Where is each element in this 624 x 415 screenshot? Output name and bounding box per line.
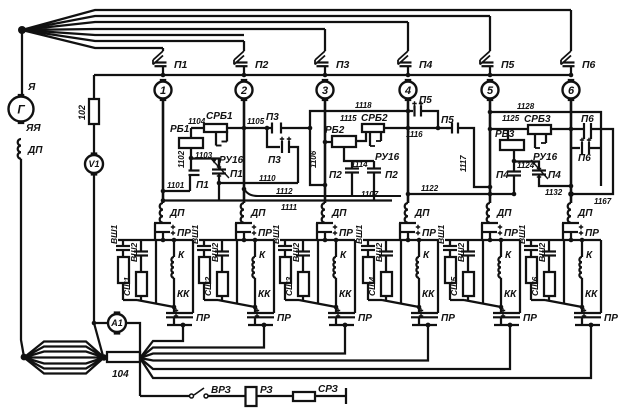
svg-text:П6: П6 — [582, 59, 596, 71]
resistor 102 — [89, 99, 99, 124]
switch ВРЗ (earth relay switch) — [190, 394, 194, 398]
wire: resistor bottoms (branch 2) — [203, 283, 205, 300]
contact ВШ1 (branch 6) — [530, 240, 532, 246]
svg-text:1101: 1101 — [167, 181, 185, 190]
inductor ДП (branch 3) — [322, 203, 325, 223]
resistor box (under ВШ1, branch 6) — [526, 257, 537, 283]
svg-text:4: 4 — [404, 85, 411, 97]
svg-text:КК: КК — [339, 289, 352, 300]
wire: resistor bottom wire (branch 5) — [450, 299, 464, 301]
motor circle 1 — [160, 79, 167, 82]
wire: resistor bottoms (branch 5) — [449, 283, 451, 300]
wire: motor left side (branch 3) — [317, 240, 319, 304]
svg-text:РБ3: РБ3 — [495, 129, 515, 140]
svg-text:П1: П1 — [230, 169, 243, 180]
wire: motor return cable from shunt 104 — [140, 325, 510, 369]
svg-text:П3: П3 — [268, 155, 281, 166]
svg-text:ДП: ДП — [27, 145, 43, 156]
resistor box (under ВШ1, branch 5) — [445, 257, 456, 283]
node: junction of П2 on common line — [242, 73, 247, 78]
contactor ПР lower (branch 3) — [335, 307, 337, 313]
wire: common line to resistor 102 — [93, 75, 95, 99]
contactor П2 left (cluster 2) — [344, 147, 374, 161]
node: junction of П1 on common line — [161, 73, 166, 78]
switch П2 (knife disconnector) — [243, 41, 245, 51]
motor circle 4 — [405, 79, 412, 82]
wire 1106: rail1 to branch 3 — [281, 127, 310, 129]
svg-text:ВШ2: ВШ2 — [291, 243, 301, 262]
svg-text:1111: 1111 — [281, 203, 298, 212]
wire: КК compensating winding (branch 2) — [254, 278, 256, 307]
svg-text:ПР: ПР — [523, 313, 537, 324]
wire: branch 2 vertical from circle 2 — [243, 99, 246, 203]
wire: bus line to switch П3 — [22, 29, 325, 30]
wire: left cable bundle line — [24, 347, 104, 358]
svg-text:К: К — [505, 250, 512, 261]
wire 1132 — [569, 184, 574, 189]
wire: branch 6 bottom wire — [575, 324, 600, 326]
svg-text:ДП: ДП — [577, 208, 593, 219]
node: motor bottom junction (branch 4) — [417, 305, 422, 310]
wire: junction diagonal to shunt 104 — [94, 323, 103, 356]
svg-text:П6: П6 — [581, 114, 594, 125]
wire: bus line to switch П4 — [22, 22, 408, 30]
relay РБ3 — [500, 140, 524, 150]
svg-text:1110: 1110 — [259, 174, 276, 183]
wire 1128: branch 5 to П6 box — [490, 112, 601, 186]
wire: motor left side (branch 6) — [563, 240, 565, 304]
svg-text:1132: 1132 — [545, 188, 563, 197]
svg-text:ДП: ДП — [331, 208, 347, 219]
svg-text:ПР: ПР — [441, 313, 455, 324]
switch П4 (knife disconnector) — [407, 22, 409, 51]
svg-text:СРБ3: СРБ3 — [524, 114, 551, 125]
svg-text:К: К — [340, 250, 347, 261]
motor circle 3 — [322, 79, 329, 82]
wire: bus line to switch П6 — [22, 10, 571, 30]
wire: resistor bottoms (branch 4) — [367, 283, 369, 300]
motor circle 5 — [487, 79, 494, 82]
svg-text:1104: 1104 — [188, 117, 206, 126]
wire 1122: branch 4 to branch 5 — [408, 193, 490, 195]
ammeter А1 — [94, 322, 107, 324]
contact ВШ1 (branch 1) — [122, 240, 124, 246]
wire: branch 2 top rail — [199, 239, 274, 241]
wire: branch 1 bottom wire — [167, 324, 192, 326]
wire: left cable bundle line — [24, 342, 104, 358]
svg-text:ДП: ДП — [169, 208, 185, 219]
wire: branch 2 right side — [273, 240, 275, 313]
contact П4 (plain, cluster 3) — [513, 161, 515, 171]
svg-text:6: 6 — [568, 85, 575, 97]
svg-text:ДП: ДП — [496, 208, 512, 219]
wire: branch 5 vertical from circle 5 — [489, 99, 492, 203]
resistor СШ4 (branch 4) — [381, 272, 392, 296]
inductor К main pole winding (branch 2) — [254, 240, 256, 257]
svg-text:РЗ: РЗ — [260, 385, 273, 396]
svg-text:П2: П2 — [329, 170, 342, 181]
wire: brush diagonal (branch 4) — [382, 300, 419, 307]
contactor ПР upper (branch 1) — [162, 222, 164, 225]
wire: motor return cable from shunt 104 — [140, 325, 345, 358]
contact П1 (plain, cluster 1) — [190, 159, 192, 170]
wire 1103: РБ1 bottom junction — [190, 148, 192, 158]
contact П6 (upper, on rail 3) — [569, 127, 574, 132]
inductor К main pole winding (branch 1) — [173, 240, 175, 257]
wire: branch 6 vertical from circle 6 — [570, 99, 573, 203]
svg-text:ВШ2: ВШ2 — [129, 243, 139, 262]
wire: resistor bottoms (branch 1) — [122, 283, 124, 300]
svg-text:104: 104 — [112, 369, 129, 380]
wire 1124: РБ3 bottom junction — [513, 150, 515, 161]
contactor ПР upper (branch 5) — [489, 222, 491, 225]
svg-text:ДП: ДП — [250, 208, 266, 219]
wire: bus line to switch П5 — [22, 16, 490, 30]
svg-text:ПР: ПР — [196, 313, 210, 324]
inductor ДП (branch 2) — [241, 203, 244, 223]
wire: А1 to bottom relay wire — [126, 323, 140, 396]
wire: branch 2 bottom wire — [248, 324, 273, 326]
contact РУ16 (cluster 3) — [534, 134, 536, 148]
contactor ПР upper (branch 6) — [570, 222, 572, 225]
wire: КК compensating winding (branch 3) — [335, 278, 337, 307]
switch П3 (knife disconnector) — [324, 29, 326, 51]
contact ВШ2 (branch 2) — [221, 240, 223, 251]
svg-text:ВШ1: ВШ1 — [517, 225, 527, 244]
inductor ДП (branch 1) — [160, 203, 163, 223]
wire: branch 6 right side — [600, 240, 602, 313]
wire: КК compensating winding (branch 6) — [581, 278, 583, 307]
resistor СШ2 (branch 2) — [217, 272, 228, 296]
svg-text:ВШ2: ВШ2 — [537, 243, 547, 262]
wire: branch 1 vertical from circle 1 — [162, 99, 165, 203]
inductor ДП (branch 5) — [487, 203, 490, 223]
wire: resistor bottoms (branch 3) — [284, 283, 286, 300]
resistor СШ3 (branch 3) — [298, 272, 309, 296]
wire: КК compensating winding (branch 5) — [500, 278, 502, 307]
contactor П5 with arrow (branch 4 loop) — [406, 109, 411, 114]
wire: motor left side (branch 2) — [236, 240, 238, 304]
svg-text:1116: 1116 — [406, 130, 423, 139]
svg-text:ВШ2: ВШ2 — [374, 243, 384, 262]
wire 1117: to branch 5 — [458, 128, 490, 187]
node: junction of П4 on common line — [406, 73, 411, 78]
svg-text:1114: 1114 — [351, 160, 368, 169]
wire: branch 4 bottom wire — [412, 324, 437, 326]
node: ammeter tap junction — [92, 321, 97, 326]
svg-text:СРЗ: СРЗ — [318, 384, 339, 395]
wire: motor return cable from shunt 104 — [140, 325, 591, 378]
wire: РБ2 feed from branch 3 — [325, 141, 332, 143]
contact ВШ2 (branch 1) — [140, 240, 142, 251]
wire: resistor bottom wire (branch 1) — [123, 299, 137, 301]
contactor ПР upper (branch 2) — [243, 222, 245, 225]
wire: rail3 right to П6 vertical — [571, 129, 613, 194]
wire: СРБ1 to РБ1 — [190, 128, 192, 138]
svg-text:П4: П4 — [496, 170, 509, 181]
svg-text:КК: КК — [177, 289, 190, 300]
svg-text:ПР: ПР — [585, 228, 599, 239]
wire: branch 4 top rail — [363, 239, 438, 241]
resistor box (under ВШ1, branch 4) — [363, 257, 374, 283]
inductor К main pole winding (branch 6) — [581, 240, 583, 257]
wire: motor left side (branch 4) — [400, 240, 402, 304]
svg-text:1125: 1125 — [502, 114, 520, 123]
svg-text:КК: КК — [504, 289, 517, 300]
wire: branch 3 bottom wire — [329, 324, 354, 326]
svg-text:ВШ1: ВШ1 — [271, 225, 281, 244]
node: motor bottom junction (branch 5) — [499, 305, 504, 310]
svg-text:П5: П5 — [441, 115, 454, 126]
contactor ПР lower (branch 2) — [254, 307, 256, 313]
wire: brush diagonal (branch 2) — [218, 300, 255, 307]
switch П1 (knife disconnector) — [162, 48, 164, 51]
svg-text:П4: П4 — [419, 59, 433, 71]
svg-text:ПР: ПР — [358, 313, 372, 324]
svg-text:К: К — [586, 250, 593, 261]
svg-text:РБ1: РБ1 — [170, 124, 190, 135]
svg-text:2: 2 — [240, 85, 247, 97]
contact ВШ1 (branch 4) — [367, 240, 369, 246]
wire: resistor bottom wire (branch 2) — [204, 299, 218, 301]
wire: resistor bottoms (branch 6) — [530, 283, 532, 300]
motor circle 6 — [568, 79, 575, 82]
node: junction of П6 on common line — [569, 73, 574, 78]
svg-text:ВШ1: ВШ1 — [354, 225, 364, 244]
contact РУ16 (cluster 1) — [215, 132, 217, 146]
contactor П2 right (cluster 2) — [373, 161, 375, 168]
svg-text:П5: П5 — [501, 59, 515, 71]
svg-text:102: 102 — [77, 105, 87, 120]
contactor ПР lower (branch 5) — [500, 307, 502, 313]
svg-text:V1: V1 — [88, 159, 99, 169]
wire: common line below switches (y=75) — [94, 74, 571, 76]
relay СРБ2 — [362, 124, 384, 132]
wire: resistor 102 to voltmeter V1 — [93, 124, 95, 155]
node: junction of П5 on common line — [488, 73, 493, 78]
svg-text:3: 3 — [322, 85, 328, 97]
wire: motor left side (branch 1) — [155, 240, 157, 304]
wire: branch 3 right side — [354, 240, 356, 313]
wire: to contact П1 (arrowed) — [191, 159, 219, 168]
wire: brush diagonal (branch 5) — [464, 300, 501, 307]
svg-text:П4: П4 — [548, 170, 561, 181]
contact ВШ1 (branch 5) — [449, 240, 451, 246]
contactor ПР upper (branch 4) — [407, 222, 409, 225]
wire: branch 4 vertical from circle 4 — [407, 99, 410, 203]
inductor ДП (branch 4) — [405, 203, 408, 223]
wire 1110 — [219, 182, 298, 184]
svg-text:К: К — [259, 250, 266, 261]
svg-text:П1: П1 — [174, 59, 188, 71]
svg-text:К: К — [178, 250, 185, 261]
relay РЗ — [246, 387, 257, 406]
contact ВШ2 (branch 4) — [385, 240, 387, 251]
svg-text:ВШ1: ВШ1 — [436, 225, 446, 244]
svg-text:1102: 1102 — [177, 150, 186, 168]
wire: СРЗ end terminal — [315, 395, 346, 397]
wire 1118: to П5 loop at branch 4 — [310, 111, 408, 128]
inductor К main pole winding (branch 5) — [500, 240, 502, 257]
wire: РБ2 to СРБ2 — [356, 132, 366, 141]
motor circle 2 — [241, 79, 248, 82]
svg-text:ПР: ПР — [277, 313, 291, 324]
contactor ПР upper (branch 3) — [324, 222, 326, 225]
svg-text:1105: 1105 — [247, 117, 265, 126]
resistor box (under ВШ1, branch 3) — [280, 257, 291, 283]
svg-text:П5: П5 — [419, 95, 432, 106]
contact П5 (break, rail 2) — [451, 123, 453, 134]
wire: left cable bundle line — [24, 358, 104, 364]
resistor СРЗ — [293, 392, 315, 401]
wire: left cable bundle line — [24, 358, 104, 374]
svg-text:1107: 1107 — [361, 190, 379, 199]
contact ВШ1 (branch 2) — [203, 240, 205, 246]
wire: П3 to 1110 — [289, 147, 298, 183]
contact ВШ1 (branch 3) — [284, 240, 286, 246]
svg-text:К: К — [423, 250, 430, 261]
wire: resistor bottom wire (branch 4) — [368, 299, 382, 301]
resistor box (under ВШ1, branch 2) — [199, 257, 210, 283]
wire: branch 5 top rail — [445, 239, 520, 241]
inductor К main pole winding (branch 4) — [418, 240, 420, 257]
contactor П1 with arrow (cluster 1) — [218, 159, 220, 170]
contactor ПР lower (branch 6) — [581, 307, 583, 313]
wire: left cable bundle line — [24, 358, 104, 369]
svg-text:КК: КК — [258, 289, 271, 300]
svg-text:КК: КК — [422, 289, 435, 300]
wire: branch 3 vertical from circle 3 — [324, 99, 327, 203]
wire: КК compensating winding (branch 1) — [173, 278, 175, 307]
wire: branch 5 bottom wire — [494, 324, 519, 326]
svg-text:П6: П6 — [578, 153, 591, 164]
contactor П3 (lower, cluster 1) — [281, 141, 283, 153]
svg-text:ЯЯ: ЯЯ — [25, 123, 41, 134]
resistor СШ5 (branch 5) — [463, 272, 474, 296]
wire: bus line to switch П2 — [22, 30, 244, 41]
wire: brush diagonal (branch 1) — [137, 300, 174, 307]
wire: bus line to switch П1 — [22, 30, 163, 48]
wire: branch 5 right side — [519, 240, 521, 313]
svg-text:1128: 1128 — [517, 102, 535, 111]
contactor ПР lower (branch 1) — [173, 307, 175, 313]
svg-text:РУ16: РУ16 — [375, 152, 400, 163]
wire 1112 (curved from branch 2) — [244, 188, 401, 196]
wire: bus line to switch П2 (second) — [22, 30, 244, 35]
svg-text:РБ2: РБ2 — [325, 125, 345, 136]
node: motor bottom junction (branch 1) — [172, 305, 177, 310]
svg-text:П2: П2 — [255, 59, 269, 71]
voltmeter V1 — [91, 152, 98, 155]
svg-text:ДП: ДП — [414, 208, 430, 219]
svg-text:1117: 1117 — [459, 155, 468, 172]
wire: V1 down to ammeter node — [93, 173, 95, 323]
wire: bottom wire to earth-fault relay — [140, 395, 189, 397]
svg-text:ПР: ПР — [339, 228, 353, 239]
relay СРБ3 — [528, 125, 551, 134]
svg-text:ПР: ПР — [604, 313, 618, 324]
wire: left cable bundle line — [24, 356, 104, 358]
relay РБ2 — [332, 136, 356, 147]
wire: to lower П3 contact — [267, 128, 280, 147]
svg-text:СРБ1: СРБ1 — [206, 111, 233, 122]
node: rail1 on branch 2 — [242, 126, 247, 131]
svg-text:КК: КК — [585, 289, 598, 300]
svg-text:СРБ2: СРБ2 — [361, 113, 388, 124]
wire: КК compensating winding (branch 4) — [418, 278, 420, 307]
svg-text:А1: А1 — [110, 318, 123, 328]
svg-text:1: 1 — [160, 85, 166, 97]
wire: РЗ to СРЗ — [257, 395, 294, 397]
wire: rail 2 — [384, 127, 452, 129]
wire: left cable bundle line — [24, 352, 104, 358]
svg-text:1118: 1118 — [355, 101, 372, 110]
svg-text:Я: Я — [27, 82, 36, 93]
wire: branch 6 top rail — [526, 239, 601, 241]
node: motor bottom junction (branch 6) — [580, 305, 585, 310]
node: main positive bus junction (top-left) — [18, 26, 26, 34]
generator Г — [18, 94, 25, 97]
wire: junction to generator armature — [21, 33, 23, 95]
switch П6 (knife disconnector) — [570, 10, 572, 51]
wire: rail 1 (1104/1105) — [191, 127, 204, 129]
contact ВШ2 (branch 6) — [548, 240, 550, 251]
wire: motor return cable from shunt 104 — [140, 325, 264, 358]
wire: branch 4 right side — [437, 240, 439, 313]
svg-text:1115: 1115 — [340, 114, 357, 123]
relay СРБ1 — [204, 124, 227, 132]
node: П1 bottom junction (1110) — [217, 181, 222, 186]
contactor П4 with arrow (cluster 3) — [514, 162, 539, 171]
wire: branch 3 top rail — [280, 239, 355, 241]
wire: branch 1 right side — [192, 240, 194, 313]
contactor П6 (lower) — [571, 147, 580, 149]
svg-text:ВШ2: ВШ2 — [210, 243, 220, 262]
relay РБ1 — [179, 138, 203, 148]
svg-text:5: 5 — [487, 85, 494, 97]
svg-text:ВШ1: ВШ1 — [109, 225, 119, 244]
resistor СШ6 (branch 6) — [544, 272, 555, 296]
svg-text:ВРЗ: ВРЗ — [211, 385, 232, 396]
svg-text:1112: 1112 — [276, 187, 293, 196]
shunt resistor 104 — [107, 352, 140, 362]
node: motor bottom junction (branch 2) — [253, 305, 258, 310]
wire: branch 1 top rail — [118, 239, 193, 241]
contact РУ16 (cluster 2) — [369, 132, 371, 146]
contactor ПР lower (branch 4) — [418, 307, 420, 313]
inductor К main pole winding (branch 3) — [335, 240, 337, 257]
contact ВШ2 (branch 5) — [467, 240, 469, 251]
node: left cable bundle right point — [101, 354, 107, 360]
node: motor bottom junction (branch 3) — [334, 305, 339, 310]
wire: brush diagonal (branch 3) — [299, 300, 336, 307]
wire 1111 — [218, 183, 220, 201]
wire: generator down to bottom bundle — [21, 159, 24, 357]
switch П5 (knife disconnector) — [489, 16, 491, 51]
svg-text:П3: П3 — [336, 59, 350, 71]
wire: motor left side (branch 5) — [482, 240, 484, 304]
node: 1105 corner — [265, 126, 270, 131]
wire: rail3 to РБ3 — [507, 129, 509, 140]
svg-text:П1: П1 — [196, 180, 209, 191]
node: junction of П3 on common line — [323, 73, 328, 78]
node: left cable bundle left point — [21, 354, 28, 361]
wire: resistor bottom wire (branch 6) — [531, 299, 545, 301]
svg-text:Г: Г — [17, 102, 25, 116]
wire 1101: to branch 1 — [163, 190, 190, 192]
wire: brush diagonal (branch 6) — [545, 300, 582, 307]
wire: resistor bottom wire (branch 3) — [285, 299, 299, 301]
